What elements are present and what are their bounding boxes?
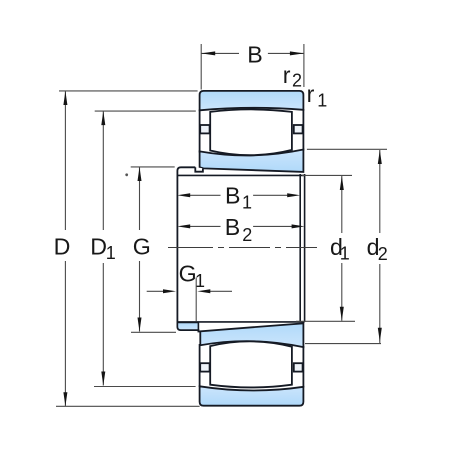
bearing right face line bottom half xyxy=(302,346,304,388)
small stray dot xyxy=(125,173,128,176)
dim D arrow top xyxy=(63,91,67,105)
svg-text:G: G xyxy=(179,261,197,287)
dim B1 arrow right xyxy=(287,193,300,197)
dim d1 extension bottom xyxy=(296,320,355,322)
dim G arrow top xyxy=(138,167,142,181)
dim d2 extension top xyxy=(307,148,387,150)
washer right face xyxy=(304,174,306,322)
inner ring top half xyxy=(200,150,304,172)
dim G extension top xyxy=(131,166,175,168)
svg-text:1: 1 xyxy=(106,243,116,263)
dim B1 line left segment xyxy=(190,194,221,196)
cage pocket bottom-left xyxy=(200,363,209,371)
centerline xyxy=(168,247,317,249)
dim B arrow right xyxy=(290,51,304,55)
cage pocket top-left xyxy=(200,125,209,133)
outer ring bottom half xyxy=(200,386,304,405)
sleeve lock-washer slot (notch) xyxy=(195,167,203,171)
bearing left face line top half xyxy=(199,110,201,153)
dim d2 arrow bottom xyxy=(378,328,382,342)
dim G1 left arrow xyxy=(147,290,164,292)
dim D1 arrow top xyxy=(101,111,105,125)
dim D extension bottom xyxy=(56,405,200,407)
dim D extension top xyxy=(59,90,198,92)
svg-text:B: B xyxy=(225,214,240,240)
svg-text:B: B xyxy=(225,183,240,209)
dim G vertical line xyxy=(139,167,141,230)
roller bottom xyxy=(210,341,292,387)
svg-text:2: 2 xyxy=(292,71,302,91)
dim d2 arrow top xyxy=(378,150,382,164)
dim B arrow left xyxy=(201,51,215,55)
dim B2 arrow right xyxy=(292,224,305,228)
bearing left face line bottom half xyxy=(199,344,201,387)
dim d1 extension top xyxy=(302,174,352,176)
dim B extension right xyxy=(303,44,305,87)
dim B2 arrow left xyxy=(177,224,190,228)
cage pocket top-right xyxy=(294,125,303,133)
svg-text:D: D xyxy=(90,233,107,259)
svg-text:2: 2 xyxy=(242,225,252,245)
cage pocket bottom-right xyxy=(294,363,303,371)
dim d1 arrow bottom xyxy=(340,307,344,321)
dim D1 extension bottom xyxy=(94,386,196,388)
sleeve lip bottom (blue) xyxy=(177,322,198,330)
sleeve bore line top xyxy=(177,174,304,176)
roller top xyxy=(210,109,292,155)
dim B2 line left segment xyxy=(190,225,221,227)
outer ring top half xyxy=(200,91,304,110)
svg-text:2: 2 xyxy=(378,244,388,264)
svg-text:1: 1 xyxy=(242,193,252,213)
dim B line right segment xyxy=(268,52,304,54)
dim D1 vertical line xyxy=(102,111,104,230)
bearing right face line top half xyxy=(302,109,304,151)
dim G arrow bottom xyxy=(138,318,142,332)
dim d1 vertical line xyxy=(341,176,343,233)
svg-text:r: r xyxy=(307,81,315,107)
sleeve bore line bottom xyxy=(177,321,304,323)
dim d1 arrow top xyxy=(340,176,344,190)
adapter sleeve left face and lip outline xyxy=(177,167,200,331)
svg-text:D: D xyxy=(54,233,71,259)
dim d2 vertical line xyxy=(379,150,381,233)
dim G1 right arrow xyxy=(209,290,232,292)
dim B2 line right segment xyxy=(253,225,292,227)
dim B line left segment xyxy=(201,52,239,54)
dim G extension bottom xyxy=(131,331,176,333)
dim D arrow bottom xyxy=(63,392,67,406)
svg-text:G: G xyxy=(133,234,151,260)
dim G1 extension line xyxy=(195,278,197,322)
svg-text:r: r xyxy=(283,62,291,88)
svg-text:1: 1 xyxy=(340,244,350,264)
dim D1 extension top xyxy=(95,110,196,112)
svg-text:B: B xyxy=(247,41,262,67)
dim D vertical line xyxy=(64,91,66,230)
dim d2 extension bottom xyxy=(305,343,381,345)
dim D1 arrow bottom xyxy=(101,372,105,386)
dim B extension left xyxy=(200,44,202,90)
inner ring bottom half xyxy=(200,323,303,347)
dim B1 arrow left xyxy=(177,193,190,197)
sleeve right end face xyxy=(299,174,301,322)
dim B1 line right segment xyxy=(253,194,288,196)
svg-text:1: 1 xyxy=(317,91,327,111)
